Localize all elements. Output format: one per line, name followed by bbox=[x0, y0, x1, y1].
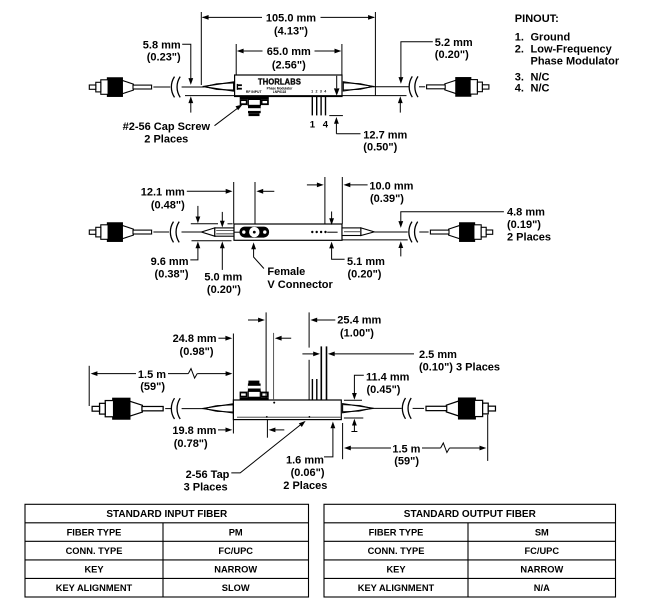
cable break right bbox=[409, 76, 418, 97]
svg-text:N/C: N/C bbox=[531, 83, 550, 95]
svg-text:#2-56 Cap Screw: #2-56 Cap Screw bbox=[123, 121, 211, 133]
svg-text:5.2 mm: 5.2 mm bbox=[435, 37, 473, 49]
svg-text:N/A: N/A bbox=[534, 583, 550, 593]
wire: output fiber right segments bbox=[372, 407, 401, 409]
svg-text:SM: SM bbox=[535, 528, 549, 538]
svg-text:PINOUT:: PINOUT: bbox=[515, 13, 559, 25]
svg-text:(0.38"): (0.38") bbox=[155, 269, 189, 281]
svg-text:1: 1 bbox=[310, 120, 316, 131]
svg-text:KEY ALIGNMENT: KEY ALIGNMENT bbox=[358, 583, 435, 593]
arrow down inside body (12.7mm upper arrow) bbox=[336, 76, 338, 89]
connector: output FC/PC right bbox=[430, 223, 492, 242]
svg-text:Female: Female bbox=[267, 266, 305, 278]
svg-text:FIBER TYPE: FIBER TYPE bbox=[369, 528, 424, 538]
svg-text:4: 4 bbox=[324, 90, 326, 94]
modulator body view 2 bbox=[234, 224, 342, 240]
svg-text:Ground: Ground bbox=[531, 31, 571, 43]
svg-text:5.0 mm: 5.0 mm bbox=[204, 271, 242, 283]
svg-text:(1.00"): (1.00") bbox=[340, 327, 374, 339]
svg-text:LNP6118: LNP6118 bbox=[273, 90, 287, 94]
boot taper right bbox=[343, 404, 374, 413]
svg-text:(59"): (59") bbox=[140, 381, 165, 393]
svg-text:(0.39"): (0.39") bbox=[370, 193, 404, 205]
connector: input FC/PC left bbox=[89, 223, 151, 242]
line from pin dots bbox=[327, 231, 337, 233]
svg-text:(0.78"): (0.78") bbox=[174, 438, 208, 450]
svg-text:2 Places: 2 Places bbox=[283, 480, 327, 492]
table standard input fiber bbox=[25, 504, 309, 597]
svg-text:(59"): (59") bbox=[394, 455, 419, 467]
cable break left bbox=[171, 77, 180, 98]
connector: input FC/PC left bbox=[89, 78, 151, 97]
dimension 105.0 mm bbox=[200, 12, 202, 85]
extension line body left edge bbox=[232, 334, 234, 434]
RF SMA connector on top of body bbox=[240, 381, 269, 400]
svg-text:24.8 mm: 24.8 mm bbox=[173, 333, 217, 345]
svg-text:(0.10") 3 Places: (0.10") 3 Places bbox=[419, 362, 500, 374]
svg-text:THORLABS: THORLABS bbox=[258, 76, 301, 86]
tick lines around left boot bbox=[191, 223, 218, 225]
cable break left bbox=[170, 222, 179, 243]
svg-text:25.4 mm: 25.4 mm bbox=[337, 315, 381, 327]
svg-text:105.0 mm: 105.0 mm bbox=[266, 13, 316, 25]
boot cone right bbox=[361, 228, 374, 236]
svg-text:4.8 mm: 4.8 mm bbox=[507, 207, 545, 219]
svg-text:65.0 mm: 65.0 mm bbox=[267, 46, 311, 58]
svg-text:(4.13"): (4.13") bbox=[274, 26, 308, 38]
svg-text:11.4 mm: 11.4 mm bbox=[366, 372, 410, 384]
extension line RF connector right edge (below) bbox=[266, 420, 268, 438]
svg-text:SLOW: SLOW bbox=[222, 583, 250, 593]
boot cone left bbox=[201, 228, 214, 236]
reference line below right fiber bbox=[342, 239, 408, 241]
dimension 25.4 mm bbox=[248, 319, 259, 321]
svg-text:5.8 mm: 5.8 mm bbox=[143, 39, 181, 51]
svg-text:2 Places: 2 Places bbox=[507, 232, 551, 244]
svg-text:19.8 mm: 19.8 mm bbox=[172, 425, 216, 437]
svg-text:(2.56"): (2.56") bbox=[272, 59, 306, 71]
svg-text:(0.20"): (0.20") bbox=[435, 49, 469, 61]
connector: output FC/PC right bbox=[426, 398, 495, 419]
svg-text:1.6 mm: 1.6 mm bbox=[286, 454, 324, 466]
svg-text:3: 3 bbox=[320, 90, 322, 94]
boot tube right bbox=[342, 228, 361, 236]
svg-text:FC/UPC: FC/UPC bbox=[218, 546, 253, 556]
dimension 1.5 m left bbox=[88, 366, 90, 406]
female V connector (black oval) bbox=[234, 231, 241, 233]
wire: output fiber right segments bbox=[374, 231, 408, 233]
svg-text:Low-Frequency: Low-Frequency bbox=[531, 43, 613, 55]
svg-text:(0.45"): (0.45") bbox=[367, 384, 401, 396]
svg-text:KEY: KEY bbox=[386, 565, 406, 575]
modulator body view 1 bbox=[235, 75, 342, 97]
wire: input fiber left segments bbox=[165, 408, 171, 410]
extension line first pin bbox=[308, 312, 310, 347]
svg-text:Phase Modulator: Phase Modulator bbox=[531, 55, 620, 67]
svg-text:V Connector: V Connector bbox=[267, 279, 333, 291]
dimension 12.7 mm bbox=[329, 115, 343, 117]
svg-text:KEY ALIGNMENT: KEY ALIGNMENT bbox=[56, 583, 133, 593]
svg-text:9.6 mm: 9.6 mm bbox=[151, 256, 189, 268]
dimension 5.1 mm bbox=[331, 212, 333, 219]
cable break right bbox=[409, 222, 418, 243]
svg-text:N/C: N/C bbox=[531, 71, 550, 83]
svg-text:4.: 4. bbox=[515, 83, 524, 95]
svg-text:1.: 1. bbox=[515, 31, 524, 43]
pin dots bbox=[311, 231, 313, 233]
svg-text:(0.06"): (0.06") bbox=[291, 467, 325, 479]
svg-text:2-56 Tap: 2-56 Tap bbox=[186, 469, 230, 481]
svg-text:(0.48"): (0.48") bbox=[151, 199, 185, 211]
svg-text:(0.50"): (0.50") bbox=[363, 142, 397, 154]
boot taper left bbox=[203, 82, 234, 91]
dimension 9.6 mm bbox=[197, 206, 199, 217]
extension line tap hole bbox=[273, 333, 275, 400]
inner bottom line with tap holes bbox=[237, 416, 341, 418]
svg-text:STANDARD INPUT FIBER: STANDARD INPUT FIBER bbox=[106, 509, 228, 520]
svg-text:12.7 mm: 12.7 mm bbox=[363, 129, 407, 141]
svg-text:2 Places: 2 Places bbox=[144, 134, 188, 146]
dimension 5.0 mm bbox=[221, 212, 223, 221]
svg-text:2: 2 bbox=[316, 90, 318, 94]
boot taper left bbox=[202, 404, 233, 413]
RF SMA connector under body bbox=[240, 97, 269, 116]
modulator body view 3 bbox=[233, 400, 341, 420]
svg-text:2.5 mm: 2.5 mm bbox=[419, 349, 457, 361]
svg-text:5.1 mm: 5.1 mm bbox=[347, 256, 385, 268]
connector: input FC/PC left bbox=[92, 398, 163, 419]
svg-text:FIBER TYPE: FIBER TYPE bbox=[67, 528, 122, 538]
svg-text:FC/UPC: FC/UPC bbox=[524, 546, 559, 556]
cable break right bbox=[402, 398, 411, 419]
svg-text:(0.20"): (0.20") bbox=[348, 269, 382, 281]
dimension 65.0 mm bbox=[235, 44, 237, 75]
svg-text:KEY: KEY bbox=[84, 565, 104, 575]
dimension 10.0 mm bbox=[324, 177, 326, 224]
svg-text:NARROW: NARROW bbox=[520, 565, 563, 575]
optical port stub on body left edge bbox=[236, 84, 238, 90]
svg-text:3.: 3. bbox=[515, 71, 524, 83]
svg-text:(0.20"): (0.20") bbox=[207, 284, 241, 296]
svg-text:3 Places: 3 Places bbox=[184, 482, 228, 494]
svg-text:1.5 m: 1.5 m bbox=[138, 369, 166, 381]
extension line RF connector right edge (above) bbox=[265, 312, 267, 399]
pins P1-P4 bbox=[312, 379, 313, 400]
svg-text:1: 1 bbox=[311, 90, 313, 94]
svg-text:1.5 m: 1.5 m bbox=[392, 443, 420, 455]
label Female V Connector bbox=[251, 242, 256, 249]
reference line below fiber bbox=[185, 95, 407, 97]
svg-text:2.: 2. bbox=[515, 43, 524, 55]
svg-text:4: 4 bbox=[323, 120, 329, 131]
table standard output fiber bbox=[324, 504, 616, 597]
wire: output fiber right segments bbox=[373, 86, 409, 88]
svg-text:10.0 mm: 10.0 mm bbox=[369, 180, 413, 192]
svg-text:RF INPUT: RF INPUT bbox=[246, 90, 263, 94]
svg-text:PM: PM bbox=[229, 528, 243, 538]
wire: input fiber left segments bbox=[153, 231, 169, 233]
dimension 1.5 m right bbox=[342, 423, 344, 459]
svg-text:(0.98"): (0.98") bbox=[180, 346, 214, 358]
pins P1-P4 bbox=[312, 97, 313, 116]
cable break left bbox=[171, 398, 180, 419]
dimension 2.5 mm 3 Places bbox=[302, 353, 313, 355]
boot tube left bbox=[215, 228, 234, 236]
connector: output FC/PC right bbox=[427, 78, 489, 97]
svg-text:CONN. TYPE: CONN. TYPE bbox=[368, 546, 425, 556]
svg-text:STANDARD OUTPUT FIBER: STANDARD OUTPUT FIBER bbox=[404, 509, 537, 520]
boot taper right bbox=[343, 82, 374, 91]
svg-text:CONN. TYPE: CONN. TYPE bbox=[66, 546, 123, 556]
dimension 4.8 mm 2 Places bbox=[401, 212, 504, 222]
svg-text:NARROW: NARROW bbox=[214, 565, 257, 575]
svg-text:(0.19"): (0.19") bbox=[507, 219, 541, 231]
svg-text:(0.23"): (0.23") bbox=[147, 52, 181, 64]
wire: input fiber left segments bbox=[153, 86, 170, 88]
svg-text:12.1 mm: 12.1 mm bbox=[141, 187, 185, 199]
